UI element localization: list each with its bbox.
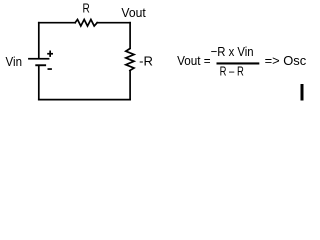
- resistor R zigzag: [75, 20, 97, 27]
- svg-text:R – R: R – R: [220, 64, 244, 79]
- svg-text:-R: -R: [139, 54, 153, 69]
- svg-text:Vin: Vin: [6, 54, 23, 69]
- svg-text:=> Osc: => Osc: [265, 53, 307, 68]
- svg-text:R: R: [83, 1, 90, 16]
- battery + sign: [47, 53, 53, 55]
- wire: right side lower segment: [129, 71, 131, 100]
- battery - sign: [48, 68, 52, 70]
- resistor -R zigzag: [126, 49, 134, 71]
- svg-text:Vout: Vout: [121, 5, 146, 20]
- wire: right side upper segment: [129, 23, 131, 49]
- svg-text:−R x Vin: −R x Vin: [211, 44, 254, 59]
- equation fraction bar: [217, 62, 260, 64]
- battery V1 bottom plate (- terminal): [35, 64, 46, 66]
- wire: top side left segment: [39, 22, 75, 24]
- text cursor bar: [301, 84, 304, 101]
- wire: left side lower segment (battery - down to bottom wire): [38, 66, 40, 100]
- wire: bottom side: [39, 99, 130, 101]
- svg-text:Vout =: Vout =: [177, 53, 211, 68]
- wire: left side upper segment (top-left corner down to battery +): [38, 23, 40, 58]
- battery V1 top plate (+ terminal): [28, 58, 49, 60]
- wire: top side right segment (to Vout node corner): [97, 22, 130, 24]
